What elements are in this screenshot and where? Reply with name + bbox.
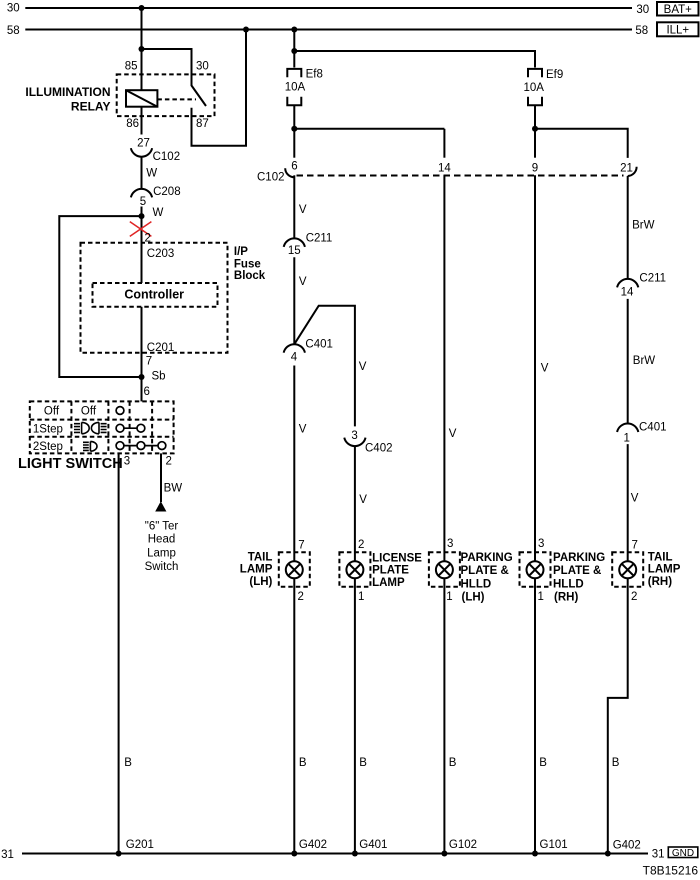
svg-text:14: 14 — [438, 162, 451, 174]
svg-text:1: 1 — [446, 591, 452, 603]
svg-text:V: V — [449, 428, 457, 440]
svg-text:Ef8: Ef8 — [306, 69, 323, 81]
svg-text:V: V — [541, 363, 549, 375]
svg-text:B: B — [359, 757, 367, 769]
svg-text:3: 3 — [538, 538, 544, 550]
svg-text:1Step: 1Step — [33, 423, 63, 435]
svg-text:HLLD: HLLD — [461, 578, 492, 590]
svg-text:V: V — [299, 424, 307, 436]
svg-text:87: 87 — [196, 118, 209, 130]
svg-text:B: B — [124, 757, 132, 769]
svg-text:1: 1 — [623, 433, 629, 445]
svg-text:30: 30 — [196, 60, 209, 72]
svg-text:10A: 10A — [524, 82, 545, 94]
svg-text:3: 3 — [447, 538, 453, 550]
svg-text:C102: C102 — [257, 171, 285, 183]
svg-text:21: 21 — [620, 162, 633, 174]
svg-text:PLATE &: PLATE & — [461, 565, 509, 577]
svg-text:LAMP: LAMP — [240, 564, 273, 576]
svg-text:86: 86 — [126, 118, 139, 130]
svg-text:Block: Block — [234, 270, 266, 282]
svg-text:Lamp: Lamp — [147, 548, 176, 560]
svg-text:BAT+: BAT+ — [664, 4, 693, 16]
svg-text:W: W — [146, 167, 157, 179]
svg-text:BrW: BrW — [632, 220, 655, 232]
svg-text:15: 15 — [288, 245, 301, 257]
svg-text:58: 58 — [7, 25, 20, 37]
svg-text:G402: G402 — [299, 839, 327, 851]
svg-text:2: 2 — [166, 456, 172, 468]
svg-text:C401: C401 — [305, 338, 333, 350]
svg-text:B: B — [449, 757, 457, 769]
svg-text:5: 5 — [140, 196, 146, 208]
svg-text:2: 2 — [631, 591, 637, 603]
svg-text:G402: G402 — [613, 840, 641, 852]
svg-text:LAMP: LAMP — [648, 564, 681, 576]
svg-text:T8B15216: T8B15216 — [643, 864, 699, 878]
svg-text:ILLUMINATION: ILLUMINATION — [25, 85, 110, 99]
svg-text:1: 1 — [538, 591, 544, 603]
svg-text:(RH): (RH) — [648, 576, 672, 588]
svg-text:3: 3 — [351, 430, 357, 442]
svg-text:B: B — [299, 757, 307, 769]
svg-text:Controller: Controller — [124, 288, 184, 302]
svg-text:Sb: Sb — [152, 370, 166, 382]
svg-text:4: 4 — [291, 352, 298, 364]
svg-text:(LH): (LH) — [249, 576, 272, 588]
svg-text:C208: C208 — [153, 186, 181, 198]
svg-text:PARKING: PARKING — [461, 552, 513, 564]
svg-text:BW: BW — [164, 482, 183, 494]
svg-text:2: 2 — [358, 539, 364, 551]
svg-text:LICENSE: LICENSE — [372, 553, 422, 565]
svg-text:(LH): (LH) — [462, 592, 485, 604]
svg-text:7: 7 — [146, 356, 152, 368]
svg-text:V: V — [359, 494, 367, 506]
svg-text:30: 30 — [7, 3, 20, 15]
svg-text:B: B — [612, 757, 620, 769]
svg-text:9: 9 — [532, 162, 538, 174]
svg-text:Off: Off — [44, 405, 60, 417]
svg-text:31: 31 — [652, 848, 665, 860]
svg-text:TAIL: TAIL — [248, 552, 273, 564]
svg-text:Off: Off — [81, 405, 97, 417]
svg-text:10A: 10A — [285, 82, 306, 94]
svg-text:G201: G201 — [126, 839, 154, 851]
svg-text:ILL+: ILL+ — [666, 25, 689, 37]
svg-text:Fuse: Fuse — [234, 258, 261, 270]
svg-text:V: V — [299, 204, 307, 216]
svg-text:C102: C102 — [153, 151, 181, 163]
svg-text:PARKING: PARKING — [553, 552, 605, 564]
svg-text:LIGHT SWITCH: LIGHT SWITCH — [18, 456, 123, 472]
svg-text:Head: Head — [148, 534, 176, 546]
svg-text:G401: G401 — [359, 839, 387, 851]
svg-text:G102: G102 — [449, 839, 477, 851]
svg-text:G101: G101 — [540, 839, 568, 851]
svg-text:V: V — [359, 361, 367, 373]
svg-text:2: 2 — [298, 591, 304, 603]
svg-text:85: 85 — [125, 60, 138, 72]
svg-text:1: 1 — [358, 591, 364, 603]
svg-text:LAMP: LAMP — [372, 577, 405, 589]
svg-text:3: 3 — [124, 456, 130, 468]
svg-text:6: 6 — [144, 386, 150, 398]
svg-text:6: 6 — [291, 160, 297, 172]
svg-text:RELAY: RELAY — [71, 99, 111, 113]
svg-text:V: V — [631, 492, 639, 504]
svg-text:C401: C401 — [639, 422, 667, 434]
svg-text:58: 58 — [635, 25, 648, 37]
svg-text:HLLD: HLLD — [553, 578, 584, 590]
svg-text:Ef9: Ef9 — [546, 69, 563, 81]
svg-text:2: 2 — [145, 233, 151, 245]
svg-text:C211: C211 — [306, 232, 333, 244]
svg-text:C402: C402 — [365, 442, 393, 454]
svg-text:27: 27 — [137, 138, 150, 150]
svg-text:GND: GND — [672, 848, 694, 859]
svg-text:(RH): (RH) — [554, 592, 578, 604]
svg-text:W: W — [153, 207, 164, 219]
svg-text:2Step: 2Step — [33, 441, 63, 453]
svg-text:V: V — [299, 276, 307, 288]
svg-text:7: 7 — [632, 540, 638, 552]
svg-text:BrW: BrW — [633, 355, 656, 367]
svg-text:PLATE &: PLATE & — [553, 565, 601, 577]
svg-text:TAIL: TAIL — [648, 552, 673, 564]
svg-text:"6" Ter: "6" Ter — [145, 521, 179, 533]
svg-text:14: 14 — [621, 286, 634, 298]
svg-text:7: 7 — [298, 540, 304, 552]
svg-text:C203: C203 — [147, 248, 175, 260]
svg-text:C211: C211 — [639, 273, 666, 285]
svg-text:30: 30 — [636, 4, 649, 16]
svg-text:I/P: I/P — [234, 246, 248, 258]
svg-text:PLATE: PLATE — [372, 565, 409, 577]
svg-text:B: B — [539, 757, 547, 769]
svg-text:Switch: Switch — [145, 561, 179, 573]
svg-text:C201: C201 — [147, 342, 175, 354]
svg-text:31: 31 — [1, 849, 14, 861]
